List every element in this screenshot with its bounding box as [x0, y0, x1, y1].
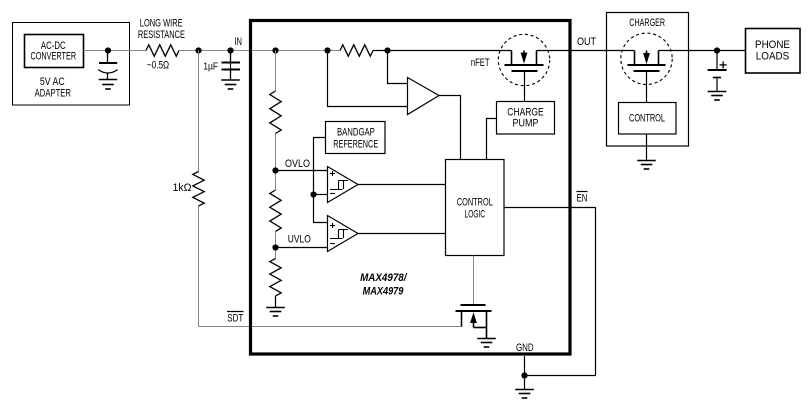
IC MAX4978/MAX4979 box — [251, 21, 571, 355]
node IN capacitor junction — [227, 47, 233, 53]
wire divider mid2 — [275, 232, 277, 259]
node sense resistor left — [324, 47, 330, 53]
svg-text:RESISTANCE: RESISTANCE — [138, 29, 185, 41]
node sense resistor right — [384, 47, 390, 53]
ground adapter cap — [99, 80, 118, 90]
svg-text:CONVERTER: CONVERTER — [31, 50, 77, 62]
label LONG WIRE RESISTANCE — [138, 18, 185, 41]
svg-text:GND: GND — [516, 342, 534, 354]
svg-text:nFET: nFET — [471, 57, 490, 69]
capacitor output bulk polarized — [708, 51, 727, 92]
label UVLO — [288, 233, 311, 245]
label MAX4978/MAX4979 — [360, 272, 408, 297]
bandgap reference box — [326, 122, 386, 154]
charger control box — [619, 103, 677, 135]
wire charge pump to nFET gate — [524, 72, 526, 102]
svg-text:OUT: OUT — [577, 36, 596, 48]
resistor divider R-bottom — [270, 259, 281, 308]
wire divider mid1 — [275, 134, 277, 191]
wire UVLO tap to comparator — [276, 247, 328, 249]
svg-text:OVLO: OVLO — [285, 158, 310, 170]
label pin IN — [234, 36, 242, 48]
label nFET — [471, 57, 490, 69]
wire control logic to discharge FET gate — [473, 256, 475, 306]
wire op-amp lower input — [328, 51, 408, 107]
op-amp current sense amplifier — [408, 78, 440, 115]
svg-text:MAX4978/: MAX4978/ — [360, 272, 408, 284]
comparator OVLO — [328, 167, 359, 203]
label 5V AC ADAPTER — [35, 76, 71, 99]
svg-text:5V AC: 5V AC — [40, 76, 65, 88]
capacitor adapter bulk (polarized) — [98, 51, 117, 80]
resistor current sense — [340, 45, 373, 56]
wire control logic to charge pump — [487, 119, 497, 160]
nFET dashed circle — [498, 34, 549, 85]
label pin OUT — [577, 36, 596, 48]
wire rail inside IC gray part — [252, 50, 340, 52]
svg-text:REFERENCE: REFERENCE — [333, 139, 378, 151]
wire charger control to ground — [646, 134, 648, 161]
wire rail sense to nFET — [373, 50, 512, 52]
charger box — [607, 13, 689, 147]
svg-text:PUMP: PUMP — [513, 118, 539, 130]
wire 1k branch upper — [198, 51, 200, 172]
svg-text:IN: IN — [234, 36, 242, 48]
wire charger FET gate to control — [646, 72, 648, 103]
label OVLO — [285, 158, 310, 170]
resistor R 1k ohm — [173, 172, 205, 207]
label SDT with overline — [227, 312, 244, 325]
svg-text:1µF: 1µF — [203, 61, 218, 72]
node divider top — [272, 47, 278, 53]
wire EN net — [504, 208, 596, 376]
wire OVLO tap to comparator — [276, 170, 328, 172]
wire rail nFET to OUT — [537, 50, 607, 52]
wire rail inside charger — [607, 50, 689, 52]
node OVLO tap — [272, 167, 278, 173]
svg-text:UVLO: UVLO — [288, 233, 311, 245]
phone loads box — [746, 29, 801, 74]
wire rail resistor to IC — [179, 50, 252, 52]
wire GND to ground — [524, 376, 526, 390]
node adapter cap junction — [105, 47, 111, 53]
svg-text:~0.5Ω: ~0.5Ω — [147, 60, 169, 72]
svg-text:CONTROL: CONTROL — [457, 197, 493, 209]
wire OVLO comparator output — [358, 184, 446, 186]
wire charger to phone loads — [689, 50, 746, 52]
wire GND pin — [524, 356, 526, 376]
control logic box — [446, 160, 505, 256]
node 1k ohm top — [195, 47, 201, 53]
wire bandgap to comparators — [314, 138, 328, 223]
svg-text:EN: EN — [577, 192, 588, 204]
label pin EN with overline — [577, 192, 588, 205]
ground GND pin — [515, 390, 534, 399]
svg-text:SDT: SDT — [227, 312, 243, 324]
svg-text:CONTROL: CONTROL — [629, 112, 665, 124]
AC-DC adapter outer box — [13, 23, 130, 106]
svg-text:1kΩ: 1kΩ — [173, 182, 192, 194]
ground charger — [637, 161, 656, 170]
wire op-amp output to control logic — [439, 96, 461, 160]
resistor divider R-top — [270, 91, 281, 134]
ground divider — [266, 308, 285, 317]
resistor divider R-mid — [270, 190, 281, 231]
wire op-amp upper input — [388, 51, 408, 84]
wire adapter output to long wire resistor — [84, 50, 147, 52]
ground output cap — [708, 92, 727, 101]
ground 1uF cap — [221, 80, 240, 89]
svg-text:LOGIC: LOGIC — [465, 208, 486, 220]
transistor nFET pass switch — [505, 51, 544, 72]
svg-text:LOADS: LOADS — [756, 50, 789, 62]
wire UVLO comparator output — [358, 233, 446, 235]
svg-text:ADAPTER: ADAPTER — [35, 88, 71, 100]
charger FET dashed circle — [621, 33, 672, 84]
AC-DC converter inner box — [25, 35, 84, 68]
label pin GND — [516, 342, 534, 354]
node output cap junction — [714, 47, 720, 53]
transistor charger FET — [628, 51, 666, 72]
wire divider upper — [275, 51, 277, 92]
svg-text:MAX4979: MAX4979 — [363, 286, 405, 298]
capacitor C1 1uF — [203, 51, 240, 81]
node bandgap tee — [310, 191, 316, 197]
charge pump box — [497, 102, 555, 135]
svg-text:BANDGAP: BANDGAP — [337, 126, 375, 138]
wire SDT net — [199, 206, 462, 327]
comparator UVLO — [328, 216, 359, 252]
ground discharge FET — [477, 339, 496, 348]
node UVLO tap — [272, 244, 278, 250]
node GND tie — [521, 372, 527, 378]
resistor long wire ~0.5 ohm — [146, 45, 179, 72]
svg-text:CHARGER: CHARGER — [629, 17, 665, 29]
transistor discharge FET (SDT) — [456, 305, 492, 339]
